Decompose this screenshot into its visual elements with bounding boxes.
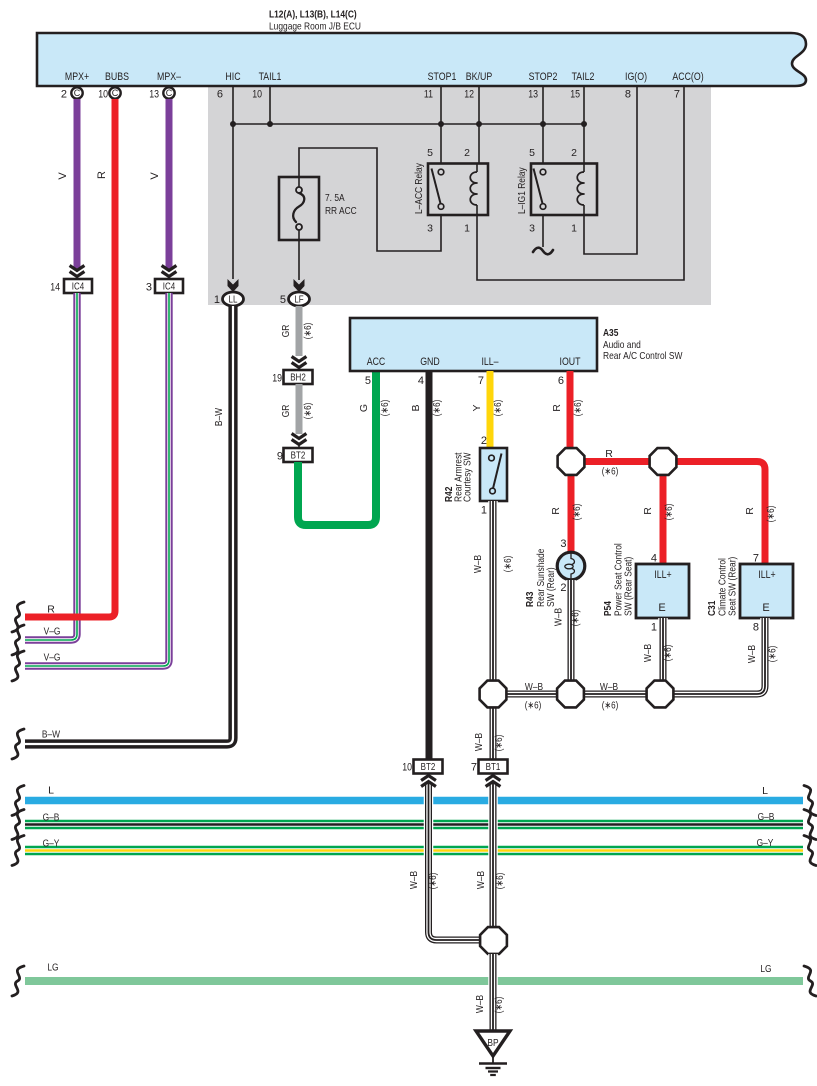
svg-text:8: 8 [625, 89, 631, 101]
svg-text:L12(A), L13(B), L14(C): L12(A), L13(B), L14(C) [269, 9, 357, 21]
svg-text:3: 3 [427, 223, 433, 235]
svg-text:(∗6): (∗6) [431, 400, 443, 417]
svg-text:2: 2 [61, 89, 67, 101]
svg-text:ILL+: ILL+ [758, 569, 775, 581]
svg-text:V: V [149, 172, 161, 180]
svg-text:8: 8 [753, 622, 759, 634]
svg-text:STOP1: STOP1 [428, 71, 457, 83]
svg-text:(∗6): (∗6) [572, 400, 584, 417]
svg-text:G–B: G–B [43, 812, 60, 824]
svg-text:L: L [48, 785, 54, 797]
svg-text:B–W: B–W [42, 729, 60, 741]
svg-text:11: 11 [424, 89, 433, 101]
svg-text:(∗6): (∗6) [602, 466, 619, 478]
svg-text:TAIL1: TAIL1 [259, 71, 282, 83]
svg-text:Rear A/C Control SW: Rear A/C Control SW [603, 350, 682, 362]
svg-text:R: R [550, 507, 562, 515]
svg-text:6: 6 [558, 375, 564, 387]
svg-text:W–B: W–B [408, 871, 420, 889]
svg-text:W–B: W–B [746, 645, 758, 663]
svg-text:E: E [762, 602, 769, 614]
svg-text:7: 7 [478, 375, 484, 387]
svg-text:Luggage Room J/B ECU: Luggage Room J/B ECU [269, 21, 361, 33]
svg-text:C: C [166, 88, 173, 98]
svg-text:5: 5 [427, 147, 433, 159]
svg-text:(∗6): (∗6) [494, 873, 506, 890]
svg-text:4: 4 [651, 553, 657, 565]
svg-text:W–B: W–B [642, 644, 654, 662]
svg-text:L–ACC Relay: L–ACC Relay [413, 163, 425, 214]
svg-text:G–Y: G–Y [757, 837, 774, 849]
svg-text:2: 2 [560, 582, 566, 594]
svg-text:14: 14 [50, 282, 60, 294]
svg-text:(∗6): (∗6) [302, 403, 314, 420]
svg-text:MPX+: MPX+ [65, 71, 89, 83]
svg-text:2: 2 [464, 147, 470, 159]
svg-text:R: R [551, 404, 563, 412]
svg-text:(∗6): (∗6) [502, 556, 514, 573]
svg-text:G–B: G–B [758, 811, 775, 823]
svg-text:(∗6): (∗6) [427, 873, 439, 890]
svg-text:1: 1 [651, 622, 657, 634]
svg-text:W–B: W–B [553, 608, 565, 626]
svg-text:1: 1 [464, 223, 470, 235]
svg-text:R: R [744, 507, 756, 515]
svg-text:10: 10 [402, 762, 412, 774]
svg-text:(∗6): (∗6) [525, 700, 542, 712]
svg-text:BP: BP [487, 1037, 498, 1049]
svg-text:7: 7 [753, 553, 759, 565]
svg-text:1: 1 [481, 505, 487, 517]
svg-text:3: 3 [560, 538, 566, 550]
svg-text:(∗6): (∗6) [379, 400, 391, 417]
svg-text:MPX–: MPX– [157, 71, 182, 83]
svg-text:ACC(O): ACC(O) [672, 71, 703, 83]
svg-text:A35: A35 [603, 327, 619, 339]
svg-text:W–B: W–B [473, 733, 485, 751]
svg-text:2: 2 [481, 435, 487, 447]
svg-text:(∗6): (∗6) [571, 504, 583, 521]
svg-text:Seat SW (Rear): Seat SW (Rear) [727, 557, 739, 616]
svg-text:W–B: W–B [474, 995, 486, 1013]
svg-text:V: V [57, 172, 69, 180]
svg-text:R: R [605, 448, 613, 460]
svg-text:19: 19 [272, 373, 282, 385]
svg-text:B–W: B–W [213, 408, 225, 426]
svg-text:TAIL2: TAIL2 [572, 71, 595, 83]
svg-text:(∗6): (∗6) [602, 700, 619, 712]
svg-text:W–B: W–B [472, 555, 484, 573]
svg-text:RR ACC: RR ACC [325, 205, 357, 217]
svg-text:BUBS: BUBS [105, 71, 129, 83]
svg-text:GR: GR [280, 404, 292, 417]
svg-text:L–IG1 Relay: L–IG1 Relay [516, 167, 528, 214]
svg-text:V–G: V–G [44, 652, 61, 664]
svg-text:5: 5 [529, 147, 535, 159]
svg-text:R: R [47, 604, 55, 616]
svg-text:BT2: BT2 [421, 762, 436, 773]
svg-text:(∗6): (∗6) [493, 735, 505, 752]
svg-text:(∗6): (∗6) [570, 610, 582, 627]
svg-text:10: 10 [98, 89, 108, 101]
svg-text:ACC: ACC [367, 356, 386, 368]
svg-text:15: 15 [570, 89, 580, 101]
svg-text:V–G: V–G [44, 626, 61, 638]
svg-text:BT2: BT2 [291, 451, 306, 462]
svg-text:9: 9 [277, 451, 283, 463]
svg-text:(∗6): (∗6) [663, 504, 675, 521]
svg-text:C: C [74, 88, 81, 98]
svg-text:(∗6): (∗6) [493, 997, 505, 1014]
svg-text:(∗6): (∗6) [662, 645, 674, 662]
svg-text:W–B: W–B [525, 681, 543, 693]
svg-text:10: 10 [252, 89, 262, 101]
svg-text:12: 12 [464, 89, 474, 101]
svg-text:ILL–: ILL– [481, 356, 499, 368]
svg-text:SW (Rear): SW (Rear) [545, 567, 557, 607]
svg-text:2: 2 [571, 147, 577, 159]
svg-text:C: C [112, 88, 119, 98]
svg-text:7: 7 [674, 89, 680, 101]
svg-text:BH2: BH2 [290, 373, 306, 384]
svg-text:LG: LG [47, 962, 58, 974]
svg-text:IG(O): IG(O) [625, 71, 647, 83]
svg-text:7. 5A: 7. 5A [325, 192, 345, 204]
svg-text:IC4: IC4 [163, 282, 176, 293]
svg-text:13: 13 [528, 89, 538, 101]
svg-text:GND: GND [420, 356, 440, 368]
svg-text:7: 7 [471, 762, 477, 774]
svg-text:B: B [410, 404, 422, 411]
svg-text:4: 4 [418, 375, 424, 387]
svg-text:1: 1 [571, 223, 577, 235]
svg-text:L: L [762, 785, 768, 797]
svg-text:1: 1 [214, 294, 220, 306]
svg-text:G: G [358, 404, 370, 412]
svg-text:G–Y: G–Y [43, 838, 60, 850]
svg-text:R: R [642, 507, 654, 515]
svg-text:E: E [658, 602, 665, 614]
svg-text:SW (Rear Seat): SW (Rear Seat) [623, 557, 635, 616]
svg-text:LL: LL [229, 295, 238, 306]
svg-text:3: 3 [529, 223, 535, 235]
svg-text:(∗6): (∗6) [765, 506, 777, 523]
svg-text:LG: LG [760, 963, 771, 975]
svg-text:(∗6): (∗6) [767, 646, 779, 663]
svg-text:13: 13 [149, 89, 159, 101]
svg-text:W–B: W–B [600, 681, 618, 693]
svg-text:(∗6): (∗6) [302, 323, 314, 340]
svg-text:6: 6 [217, 89, 223, 101]
svg-text:5: 5 [365, 375, 371, 387]
svg-text:3: 3 [146, 282, 152, 294]
svg-text:IC4: IC4 [72, 282, 85, 293]
svg-text:5: 5 [280, 294, 286, 306]
svg-text:Y: Y [471, 404, 483, 411]
svg-text:W–B: W–B [475, 871, 487, 889]
svg-text:(∗6): (∗6) [492, 400, 504, 417]
svg-text:ILL+: ILL+ [654, 569, 671, 581]
svg-text:BT1: BT1 [486, 762, 501, 773]
svg-text:Courtesy SW: Courtesy SW [462, 452, 474, 502]
svg-text:GR: GR [280, 324, 292, 337]
svg-text:R: R [96, 171, 108, 179]
svg-text:IOUT: IOUT [560, 356, 581, 368]
svg-text:HIC: HIC [225, 71, 240, 83]
svg-text:BK/UP: BK/UP [466, 71, 492, 83]
svg-text:LF: LF [294, 295, 303, 306]
svg-text:STOP2: STOP2 [529, 71, 558, 83]
